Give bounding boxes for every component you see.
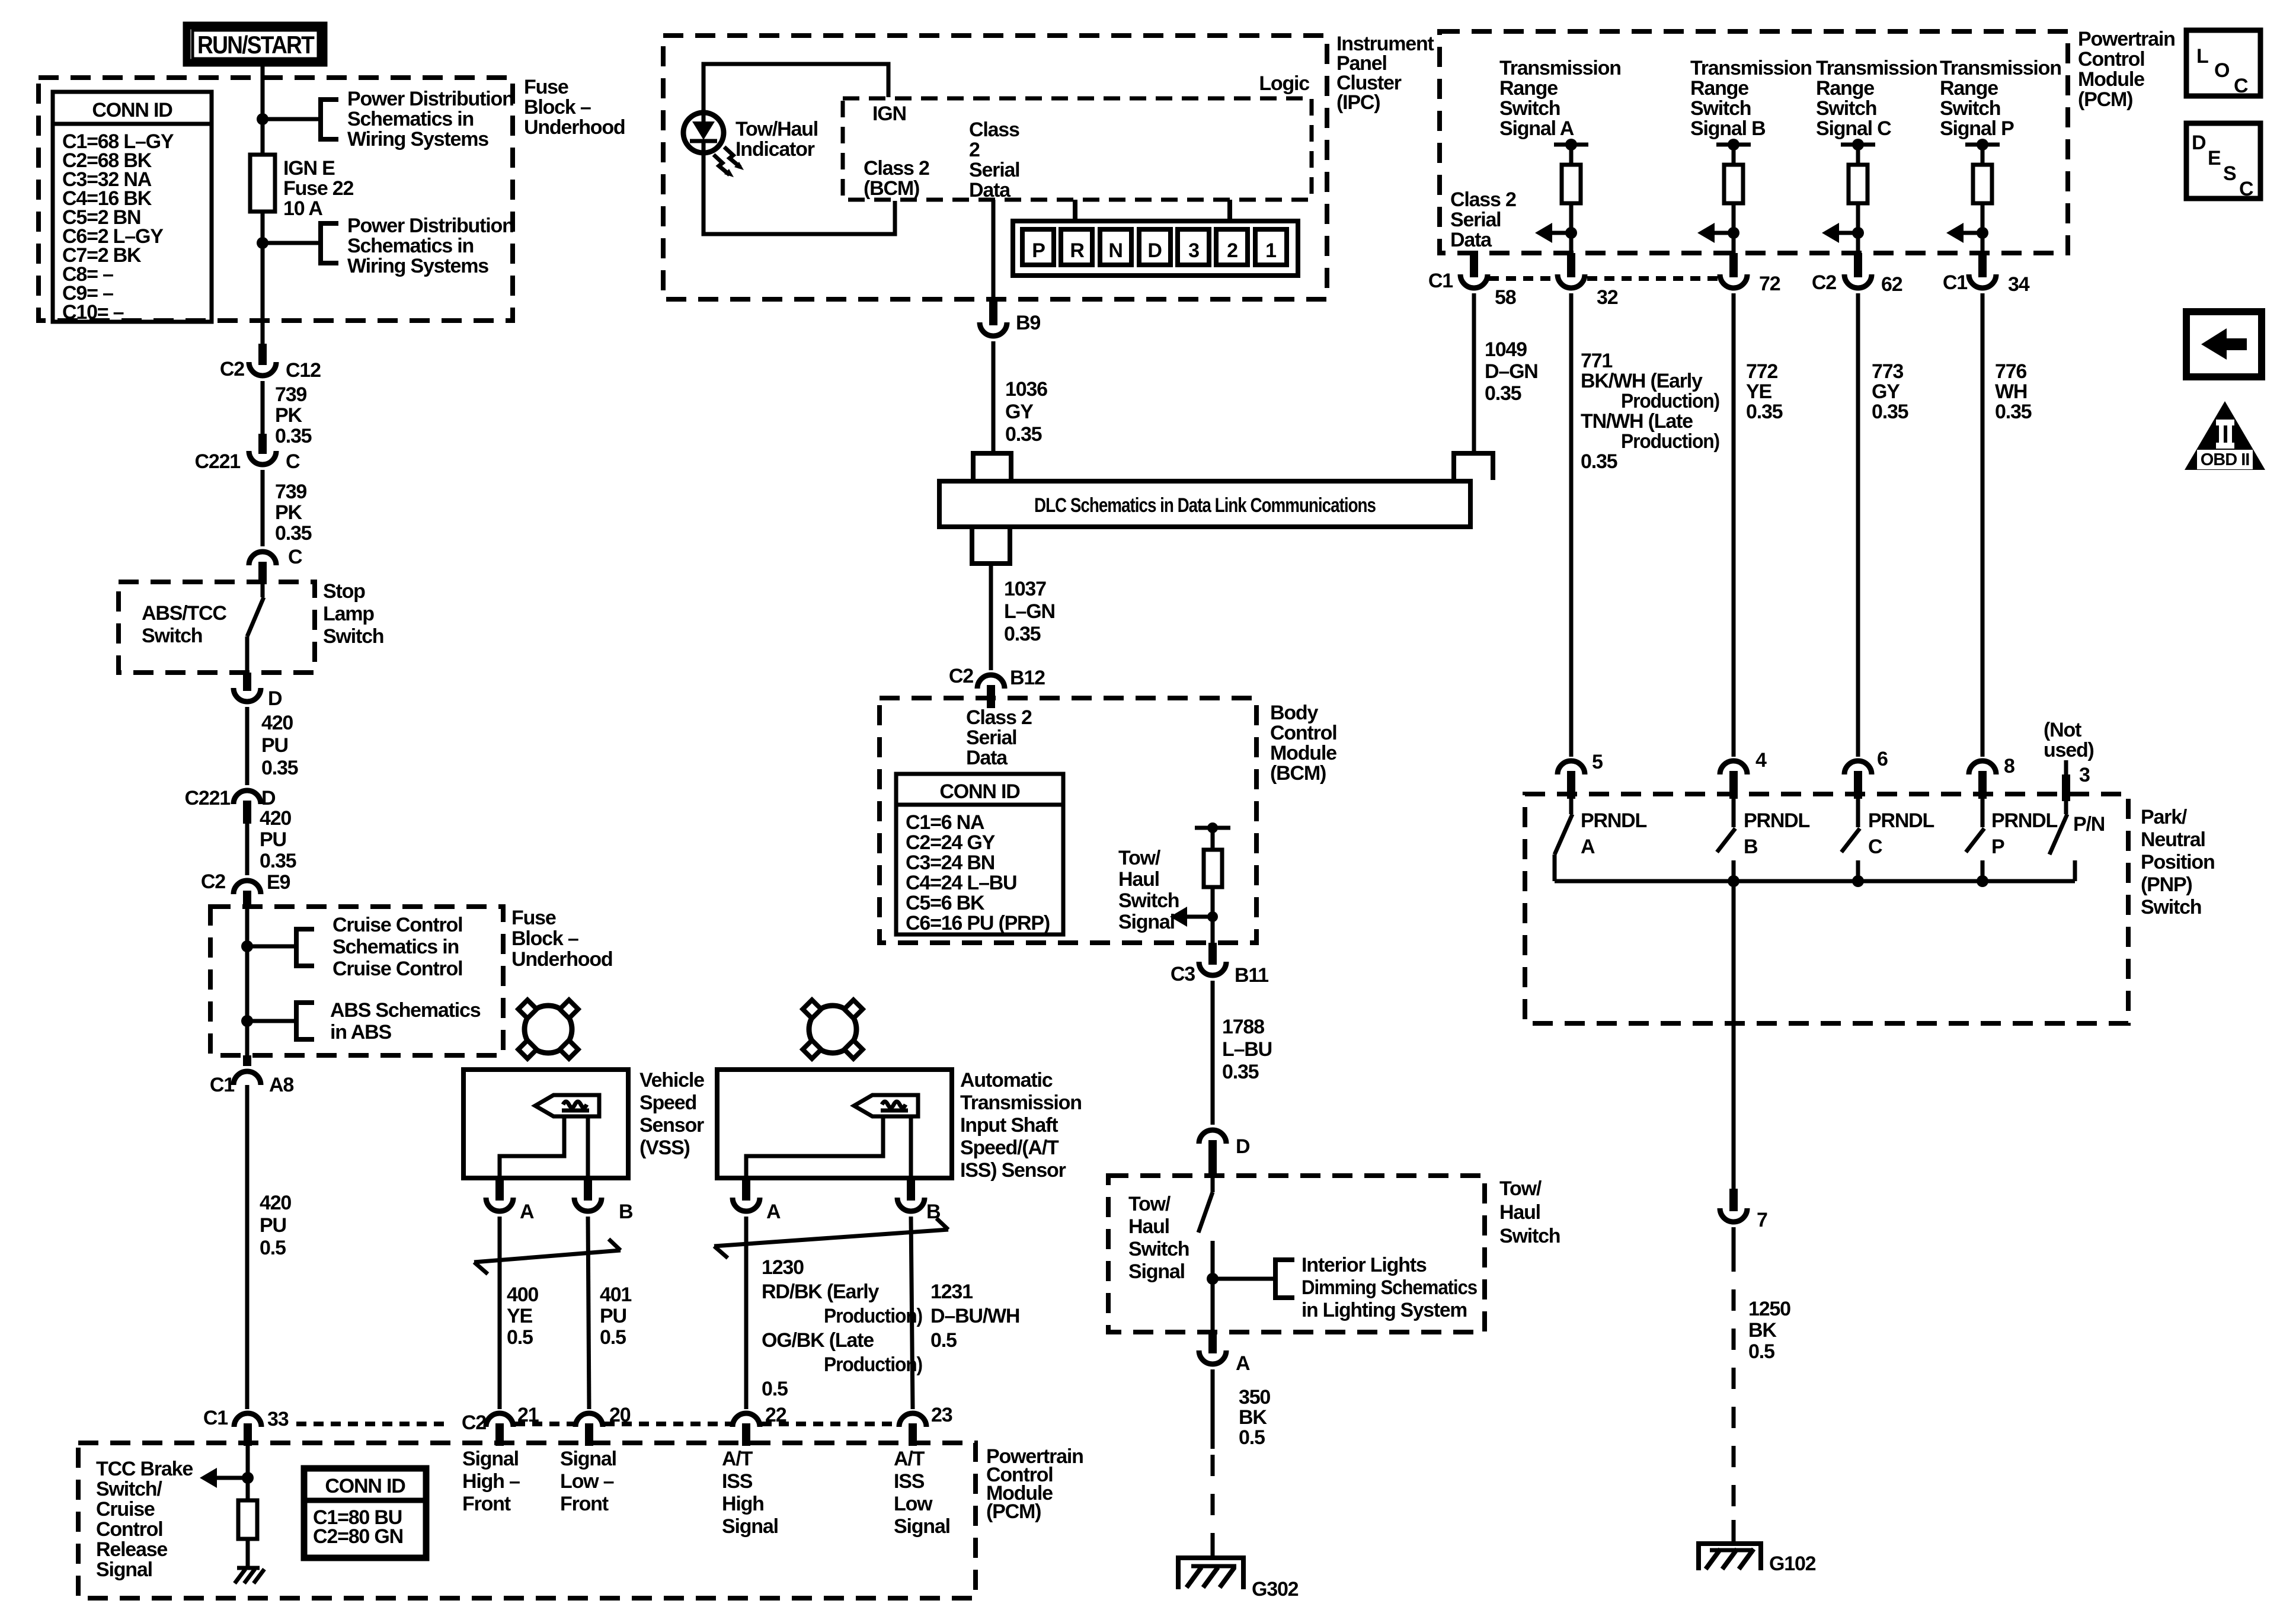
svg-text:Range: Range <box>1816 77 1874 100</box>
wire branch 2 <box>263 241 321 245</box>
svg-text:Speed/(A/T: Speed/(A/T <box>960 1137 1059 1159</box>
svg-text:C1: C1 <box>203 1407 228 1429</box>
svg-text:Low –: Low – <box>560 1470 614 1493</box>
svg-text:Underhood: Underhood <box>524 116 625 139</box>
svg-text:3: 3 <box>1188 239 1199 262</box>
pin 3 not used stub <box>2064 760 2068 774</box>
svg-text:Switch: Switch <box>1816 97 1876 120</box>
svg-text:0.5: 0.5 <box>762 1378 788 1400</box>
svg-text:Signal: Signal <box>96 1558 152 1581</box>
ISS gear symbol <box>809 1006 856 1053</box>
svg-text:33: 33 <box>267 1408 289 1430</box>
svg-text:TN/WH (Late: TN/WH (Late <box>1581 410 1693 433</box>
svg-text:4: 4 <box>1755 749 1767 772</box>
wire 1250 BK <box>1732 1227 1736 1250</box>
svg-text:Speed: Speed <box>639 1092 696 1114</box>
svg-text:ABS Schematics: ABS Schematics <box>330 999 481 1022</box>
svg-text:Signal: Signal <box>1128 1260 1185 1283</box>
svg-text:7: 7 <box>1757 1209 1767 1231</box>
svg-text:(VSS): (VSS) <box>639 1137 690 1159</box>
svg-text:C2: C2 <box>201 870 225 893</box>
PRND cell N <box>1100 229 1131 265</box>
DLC schematics box <box>939 481 1470 527</box>
svg-text:Transmission: Transmission <box>1816 57 1937 79</box>
svg-text:Interior Lights: Interior Lights <box>1302 1254 1427 1276</box>
svg-text:Switch: Switch <box>1499 97 1560 120</box>
svg-text:PK: PK <box>275 501 302 524</box>
TCC brake switch branch <box>246 1446 250 1500</box>
svg-text:1: 1 <box>1265 239 1276 262</box>
svg-text:YE: YE <box>507 1305 532 1327</box>
svg-text:P: P <box>1991 836 2004 858</box>
svg-text:Range: Range <box>1940 77 1998 100</box>
power feed RUN/START <box>187 25 324 63</box>
PRNDL B switch <box>1732 799 1736 827</box>
svg-text:DLC Schematics in Data Link Co: DLC Schematics in Data Link Communicatio… <box>1034 494 1376 517</box>
wire 350 BK <box>1211 1369 1215 1449</box>
twisted pair symbol (ISS) <box>714 1230 948 1246</box>
svg-text:Sensor: Sensor <box>639 1114 704 1137</box>
svg-text:Switch: Switch <box>1128 1238 1189 1260</box>
svg-text:0.5: 0.5 <box>1748 1340 1774 1363</box>
svg-text:C: C <box>286 450 300 473</box>
wire 1231 <box>911 1217 913 1409</box>
VSS gear symbol <box>525 1006 572 1053</box>
wire 400 YE <box>498 1217 502 1409</box>
svg-text:772: 772 <box>1746 360 1777 383</box>
transmission range signal column pin 34 <box>1965 143 2000 147</box>
svg-text:High –: High – <box>462 1470 520 1493</box>
svg-text:C2: C2 <box>462 1411 486 1434</box>
connector C1/A8 <box>243 1055 251 1066</box>
connector D (below stop lamp switch) <box>243 673 251 691</box>
PRNDL C switch <box>1856 799 1860 827</box>
svg-text:IGN: IGN <box>872 103 906 125</box>
tow/haul indicator LED <box>683 113 724 153</box>
PRND cell D <box>1139 229 1171 265</box>
svg-text:Control: Control <box>96 1518 162 1541</box>
svg-text:20: 20 <box>609 1404 631 1426</box>
svg-text:C: C <box>2234 75 2248 97</box>
svg-text:in Lighting System: in Lighting System <box>1302 1299 1467 1321</box>
svg-text:Signal B: Signal B <box>1690 117 1766 140</box>
svg-text:Cruise Control: Cruise Control <box>332 914 462 936</box>
svg-text:C3=24 BN: C3=24 BN <box>906 852 994 874</box>
svg-text:N: N <box>1108 239 1122 262</box>
connector C2/B12 <box>977 675 1005 689</box>
long wire 420 PU 0.5 <box>245 1085 250 1409</box>
cruise fuse block dashed box <box>210 907 503 1055</box>
svg-text:739: 739 <box>275 481 306 503</box>
svg-text:(IPC): (IPC) <box>1336 91 1380 114</box>
svg-text:B: B <box>1744 836 1758 858</box>
icon back arrow box <box>2186 312 2262 377</box>
svg-text:PU: PU <box>261 734 288 757</box>
twisted pair symbol (VSS) <box>474 1250 621 1262</box>
svg-text:L: L <box>2196 45 2208 68</box>
connector pin 5 (PNP) <box>1558 761 1585 774</box>
svg-text:Signal: Signal <box>560 1448 616 1470</box>
off-page staple above DLC (right) <box>1454 453 1493 480</box>
tow/haul switch blade <box>1211 1177 1215 1192</box>
connector C3/B11 <box>1208 943 1217 965</box>
connector pin 7 <box>1729 1189 1738 1211</box>
wire 420 PU <box>245 707 250 785</box>
svg-text:62: 62 <box>1881 273 1902 296</box>
off-page staple above DLC <box>973 453 1011 480</box>
svg-text:Park/: Park/ <box>2141 806 2188 828</box>
svg-text:Signal A: Signal A <box>1499 117 1574 140</box>
svg-text:PU: PU <box>600 1305 626 1327</box>
svg-text:Signal P: Signal P <box>1940 117 2014 140</box>
svg-text:(PCM): (PCM) <box>2078 88 2132 111</box>
transmission range signal column pin 72 <box>1716 143 1751 147</box>
svg-text:(PCM): (PCM) <box>986 1500 1041 1523</box>
dashed wire to G302 <box>1211 1455 1215 1538</box>
IPC logic dashed box <box>843 98 1312 200</box>
svg-text:Logic: Logic <box>1259 72 1309 95</box>
PRND321 display <box>1073 200 1077 221</box>
ISS box <box>717 1070 952 1178</box>
svg-text:BK: BK <box>1239 1406 1267 1429</box>
svg-text:Production): Production) <box>1621 390 1719 412</box>
icon OBD II triangle <box>2185 401 2265 470</box>
svg-text:C1: C1 <box>1943 271 1967 294</box>
wire LED bottom to logic <box>703 153 895 234</box>
CONN ID table (fuse block) <box>53 92 212 322</box>
svg-text:C10= –: C10= – <box>62 301 124 324</box>
node junction to first power distribution branch <box>257 113 268 125</box>
svg-text:C6=16 PU (PRP): C6=16 PU (PRP) <box>906 912 1050 934</box>
svg-text:GY: GY <box>1005 401 1034 423</box>
svg-text:Front: Front <box>462 1493 511 1515</box>
svg-text:401: 401 <box>600 1283 631 1306</box>
svg-text:C2=24 GY: C2=24 GY <box>906 831 996 854</box>
svg-text:Signal C: Signal C <box>1816 117 1891 140</box>
icon LOC box <box>2186 30 2260 96</box>
svg-text:Cruise: Cruise <box>96 1498 155 1521</box>
svg-text:C4=24 L–BU: C4=24 L–BU <box>906 872 1016 894</box>
svg-text:Data: Data <box>969 179 1011 201</box>
PRND cell P <box>1022 229 1054 265</box>
svg-text:PRNDL: PRNDL <box>1744 809 1810 832</box>
svg-text:L–BU: L–BU <box>1222 1038 1272 1061</box>
PNP switch dashed box <box>1525 794 2128 1023</box>
svg-text:Switch: Switch <box>2141 896 2201 918</box>
PRNDL P switch <box>1981 799 1985 827</box>
node junction ABS branch <box>241 1015 253 1027</box>
svg-text:0.35: 0.35 <box>1581 450 1617 473</box>
svg-text:420: 420 <box>260 807 291 830</box>
wire 739 PK <box>261 381 265 434</box>
svg-text:C2: C2 <box>220 358 244 380</box>
svg-text:Range: Range <box>1499 77 1558 100</box>
PRND cell 3 <box>1178 229 1209 265</box>
svg-text:350: 350 <box>1239 1386 1270 1409</box>
svg-text:1231: 1231 <box>930 1281 973 1303</box>
svg-text:Position: Position <box>2141 851 2215 873</box>
svg-text:IGN E: IGN E <box>283 157 335 180</box>
svg-text:0.35: 0.35 <box>1005 423 1042 446</box>
svg-text:(Not: (Not <box>2044 719 2081 741</box>
svg-text:0.35: 0.35 <box>1004 623 1041 645</box>
svg-text:B9: B9 <box>1016 312 1040 334</box>
svg-text:Switch/: Switch/ <box>96 1478 162 1500</box>
svg-text:C2: C2 <box>949 665 973 687</box>
svg-text:Body: Body <box>1270 702 1318 724</box>
svg-text:0.35: 0.35 <box>1485 382 1521 405</box>
svg-text:WH: WH <box>1995 380 2027 403</box>
CONN ID table (BCM) <box>896 774 1063 934</box>
P/N switch <box>2064 801 2068 814</box>
svg-text:Production): Production) <box>1621 430 1719 453</box>
svg-text:ABS/TCC: ABS/TCC <box>142 602 226 625</box>
svg-text:A8: A8 <box>269 1074 293 1096</box>
svg-text:Wiring Systems: Wiring Systems <box>347 255 488 277</box>
svg-text:Fuse: Fuse <box>511 907 556 929</box>
svg-text:C: C <box>1868 836 1882 858</box>
tow/haul switch signal pullup inside BCM <box>1195 826 1230 830</box>
svg-text:34: 34 <box>2008 273 2030 296</box>
svg-text:RD/BK (Early: RD/BK (Early <box>762 1281 879 1303</box>
ground G302 <box>1178 1558 1243 1589</box>
PCM bottom dashed box <box>78 1443 976 1598</box>
svg-text:Dimming Schematics: Dimming Schematics <box>1302 1276 1477 1299</box>
svg-text:B12: B12 <box>1010 667 1045 689</box>
svg-text:0.35: 0.35 <box>261 757 298 779</box>
svg-text:D: D <box>268 687 282 710</box>
ABS/TCC stop lamp switch dashed box <box>119 582 315 673</box>
svg-text:Signal: Signal <box>722 1515 778 1538</box>
connector A (tow/haul switch) <box>1208 1332 1217 1353</box>
svg-text:Class 2: Class 2 <box>1450 188 1516 211</box>
connector pin 8 (PNP) <box>1969 761 1996 774</box>
PRNDL A switch <box>1569 799 1574 814</box>
svg-text:D: D <box>1147 239 1162 262</box>
svg-text:0.5: 0.5 <box>260 1237 286 1259</box>
svg-text:1788: 1788 <box>1222 1016 1264 1038</box>
svg-text:0.5: 0.5 <box>930 1329 957 1352</box>
wire 1036 GY <box>992 341 996 453</box>
wire 1230 <box>744 1217 749 1409</box>
svg-text:D–BU/WH: D–BU/WH <box>930 1305 1019 1327</box>
svg-text:CONN ID: CONN ID <box>92 99 172 121</box>
svg-text:773: 773 <box>1872 360 1903 383</box>
svg-text:P/N: P/N <box>2073 813 2105 836</box>
svg-text:C5=6 BK: C5=6 BK <box>906 892 985 914</box>
svg-text:G302: G302 <box>1252 1578 1299 1601</box>
wire class 2 serial data down from IPC <box>992 200 996 301</box>
svg-text:Block –: Block – <box>524 96 591 119</box>
svg-text:C1=6 NA: C1=6 NA <box>906 811 984 834</box>
PCM pin connector line (fine dash) <box>296 1422 449 1426</box>
svg-text:A: A <box>1581 836 1595 858</box>
svg-text:Production): Production) <box>824 1353 922 1376</box>
svg-text:Cruise Control: Cruise Control <box>332 958 462 980</box>
PRND cell 1 <box>1255 229 1287 265</box>
svg-text:C1: C1 <box>1428 270 1453 292</box>
svg-text:D–GN: D–GN <box>1485 360 1538 383</box>
svg-text:5: 5 <box>1592 751 1603 773</box>
connector C221/C <box>258 434 267 454</box>
connector C2/E9 <box>234 881 261 894</box>
svg-text:Schematics in: Schematics in <box>347 235 474 257</box>
svg-text:PU: PU <box>260 1214 286 1237</box>
svg-text:PU: PU <box>260 828 286 851</box>
bus descent to pin 7 <box>1732 881 1736 1189</box>
svg-text:Switch: Switch <box>1499 1225 1560 1247</box>
svg-text:B11: B11 <box>1235 964 1268 987</box>
ISS internal wires <box>909 1116 913 1180</box>
svg-text:1036: 1036 <box>1005 378 1047 401</box>
svg-text:A: A <box>520 1201 534 1223</box>
svg-text:GY: GY <box>1872 380 1900 403</box>
CONN ID table (PCM) <box>304 1468 426 1558</box>
svg-text:Transmission: Transmission <box>1940 57 2061 79</box>
svg-text:739: 739 <box>275 383 306 406</box>
node junction cruise control branch <box>241 940 253 952</box>
BCM dashed box <box>880 698 1256 943</box>
svg-text:E9: E9 <box>267 871 290 894</box>
LED emission arrows <box>714 155 730 175</box>
connector A (ISS) <box>742 1179 750 1201</box>
svg-text:R: R <box>1070 239 1084 262</box>
svg-text:BK: BK <box>1748 1319 1777 1342</box>
svg-text:0.5: 0.5 <box>507 1326 533 1349</box>
svg-text:CONN ID: CONN ID <box>325 1475 405 1497</box>
wire 1788 L-BU <box>1211 981 1215 1125</box>
icon DESC box <box>2186 123 2260 199</box>
fine dash connector line (PCM top) <box>1489 276 1556 281</box>
PNP common bus <box>1555 879 2075 884</box>
wire branch 1 <box>263 117 321 121</box>
svg-text:Input Shaft: Input Shaft <box>960 1114 1058 1137</box>
svg-text:22: 22 <box>765 1404 786 1426</box>
connector C2/C12 <box>258 344 267 365</box>
svg-text:0.35: 0.35 <box>275 425 312 447</box>
svg-text:L–GN: L–GN <box>1004 600 1055 623</box>
svg-text:Switch: Switch <box>142 625 202 647</box>
svg-text:Schematics in: Schematics in <box>332 936 459 958</box>
VSS pickup element <box>535 1095 599 1116</box>
svg-text:2: 2 <box>1227 239 1237 262</box>
svg-text:771: 771 <box>1581 350 1612 372</box>
connector pin 22 (PCM) <box>733 1413 760 1427</box>
svg-text:ISS: ISS <box>894 1470 925 1493</box>
svg-text:2: 2 <box>969 139 980 161</box>
svg-text:C221: C221 <box>195 450 241 473</box>
svg-text:OG/BK (Late: OG/BK (Late <box>762 1329 874 1352</box>
svg-text:23: 23 <box>931 1404 952 1426</box>
svg-text:Serial: Serial <box>966 726 1016 749</box>
svg-text:Front: Front <box>560 1493 609 1515</box>
svg-text:PRNDL: PRNDL <box>1868 809 1934 832</box>
svg-text:C2: C2 <box>1812 271 1836 294</box>
svg-text:Tow/: Tow/ <box>1128 1193 1171 1215</box>
svg-text:Module: Module <box>1270 742 1336 764</box>
svg-text:Underhood: Underhood <box>511 948 613 971</box>
transmission range signal column pin 32 <box>1554 143 1588 147</box>
svg-text:Power Distribution: Power Distribution <box>347 215 514 237</box>
svg-text:S: S <box>2223 162 2236 185</box>
connector B9 <box>989 299 997 325</box>
svg-text:Automatic: Automatic <box>960 1069 1053 1092</box>
connector pin 21 (PCM) <box>486 1413 513 1427</box>
svg-text:used): used) <box>2044 739 2094 761</box>
node junction to second power distribution branch <box>257 237 268 249</box>
svg-text:400: 400 <box>507 1283 538 1306</box>
PCM top dashed box <box>1440 31 2068 253</box>
svg-text:RUN/START: RUN/START <box>197 31 315 59</box>
svg-text:C2=80 GN: C2=80 GN <box>313 1525 403 1548</box>
svg-text:0.35: 0.35 <box>1746 401 1783 423</box>
PRND cell 2 <box>1216 229 1248 265</box>
svg-text:Signal: Signal <box>462 1448 519 1470</box>
svg-text:PK: PK <box>275 404 302 427</box>
wire 1049 D-GN <box>1472 293 1476 453</box>
connector pin 6 (PNP) <box>1844 761 1872 774</box>
fuse block underhood dashed box <box>39 78 513 321</box>
svg-text:ISS) Sensor: ISS) Sensor <box>960 1159 1066 1182</box>
svg-text:PRNDL: PRNDL <box>1991 809 2058 832</box>
svg-text:TCC Brake: TCC Brake <box>96 1458 193 1480</box>
svg-text:P: P <box>1032 239 1045 262</box>
svg-text:Transmission: Transmission <box>1499 57 1621 79</box>
wire 420 PU lower <box>245 824 250 875</box>
svg-text:in ABS: in ABS <box>330 1021 392 1044</box>
wire inside cruise box <box>245 908 250 1055</box>
svg-text:0.35: 0.35 <box>1995 401 2032 423</box>
svg-text:Class 2: Class 2 <box>864 157 929 180</box>
svg-text:Transmission: Transmission <box>960 1092 1082 1114</box>
svg-text:0.35: 0.35 <box>1222 1061 1259 1083</box>
svg-text:Stop: Stop <box>323 580 365 603</box>
connector B (ISS) <box>907 1179 915 1201</box>
svg-text:Lamp: Lamp <box>323 603 374 625</box>
svg-text:A/T: A/T <box>894 1448 925 1470</box>
wire below fuse <box>261 212 265 346</box>
node junction interior lights branch <box>1207 1273 1219 1285</box>
svg-text:A: A <box>766 1201 781 1223</box>
svg-text:G102: G102 <box>1769 1553 1816 1575</box>
svg-text:1250: 1250 <box>1748 1298 1790 1320</box>
svg-text:(BCM): (BCM) <box>1270 762 1326 785</box>
svg-text:10 A: 10 A <box>283 197 322 220</box>
svg-text:O: O <box>2214 59 2230 82</box>
svg-text:Production): Production) <box>824 1305 922 1327</box>
svg-text:D: D <box>261 787 276 809</box>
VSS box <box>463 1070 628 1178</box>
connector pin 23 (PCM) <box>899 1413 926 1427</box>
svg-text:Switch: Switch <box>1940 97 2000 120</box>
svg-text:PRNDL: PRNDL <box>1581 809 1647 832</box>
svg-text:Serial: Serial <box>969 159 1019 181</box>
ground chassis (TCC) <box>237 1566 260 1570</box>
svg-text:A: A <box>1236 1352 1250 1375</box>
svg-text:Haul: Haul <box>1499 1201 1540 1224</box>
svg-text:Indicator: Indicator <box>736 138 815 161</box>
svg-text:C221: C221 <box>185 787 231 809</box>
svg-text:Fuse: Fuse <box>524 76 568 98</box>
wire 1037 L-GN <box>989 564 993 670</box>
svg-text:Haul: Haul <box>1128 1215 1169 1238</box>
svg-text:0.35: 0.35 <box>1872 401 1908 423</box>
svg-text:Class 2: Class 2 <box>966 706 1032 729</box>
connector A (VSS) <box>495 1179 504 1201</box>
svg-text:1230: 1230 <box>762 1256 804 1279</box>
svg-text:Wiring Systems: Wiring Systems <box>347 128 488 151</box>
svg-text:C3: C3 <box>1171 963 1195 985</box>
